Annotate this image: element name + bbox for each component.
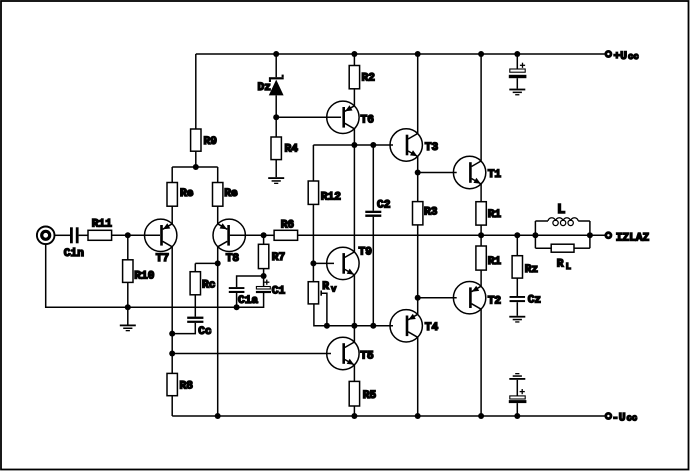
wire R7 top lead xyxy=(263,235,265,244)
potentiometer Rv wiper xyxy=(320,291,322,296)
wire R8 bottom lead xyxy=(171,396,173,416)
node input ground xyxy=(125,304,131,310)
resistor R10 xyxy=(123,260,155,283)
node diff tail xyxy=(193,164,199,170)
wire Rc branch horizontal xyxy=(195,262,217,264)
wire T7 collector down xyxy=(171,247,173,354)
node filter cap top rail xyxy=(514,51,520,57)
resistor R9 xyxy=(191,129,218,151)
wire Rc top lead xyxy=(194,263,196,271)
wire Dz to node xyxy=(275,95,277,117)
resistor R7 xyxy=(258,244,285,268)
wire R7 bottom lead xyxy=(263,269,265,276)
node T9 base xyxy=(310,260,316,266)
wire Re left top lead xyxy=(171,167,173,183)
ground R4 xyxy=(268,177,284,184)
resistor RL xyxy=(551,244,574,252)
wire R12 top lead xyxy=(312,145,314,181)
wire T9 base node to Rv xyxy=(312,263,314,281)
wire L right lead xyxy=(578,220,590,222)
wire T2 collector down xyxy=(480,309,482,416)
wire diff tail node horizontal xyxy=(172,166,218,168)
wire T1 emitter to R1 xyxy=(480,184,482,202)
wire node to R6 xyxy=(264,234,275,236)
transistor T6 xyxy=(327,101,375,133)
capacitor C1a xyxy=(229,287,259,307)
node L right rail xyxy=(587,232,593,238)
svg-text:R5: R5 xyxy=(363,390,377,402)
node T1 collector rail xyxy=(478,51,484,57)
resistor R8 xyxy=(167,373,193,395)
node T4 emitter xyxy=(415,295,421,301)
svg-text:T9: T9 xyxy=(359,247,373,259)
node Cc T7 collector xyxy=(169,331,175,337)
transistor T1 xyxy=(453,156,501,188)
node C1a ground xyxy=(234,304,240,310)
wire R5 bottom lead xyxy=(353,406,355,416)
wire input connector to Cin xyxy=(54,234,70,236)
svg-text:T3: T3 xyxy=(425,142,439,154)
wire T5 emitter to R5 xyxy=(353,365,355,382)
svg-text:T2: T2 xyxy=(488,295,502,307)
svg-text:v: v xyxy=(331,284,337,294)
resistor R1 upper xyxy=(476,202,502,225)
wire T3 collector up xyxy=(417,54,419,134)
svg-text:Cz: Cz xyxy=(528,294,541,306)
svg-text:L: L xyxy=(557,202,565,218)
svg-text:R8: R8 xyxy=(180,381,194,393)
svg-text:T6: T6 xyxy=(361,115,375,127)
wire RL left lead xyxy=(535,247,551,249)
wire L network right xyxy=(589,221,591,248)
wire R12 to T9 base node xyxy=(312,204,314,263)
terminal -Vcc xyxy=(606,412,638,424)
resistor R3 xyxy=(413,202,438,225)
svg-text:R2: R2 xyxy=(362,73,376,85)
wire L left lead xyxy=(535,220,548,222)
svg-text:T7: T7 xyxy=(156,253,169,265)
wire output rail to R1 lower xyxy=(480,235,482,246)
ground top filter cap xyxy=(509,89,525,96)
wire R9 top lead xyxy=(195,54,197,129)
wire feedback run xyxy=(172,353,331,355)
ground bottom filter cap xyxy=(509,373,525,380)
zener diode Dz xyxy=(258,75,284,96)
node R5 bottom rail xyxy=(351,413,357,419)
svg-text:R: R xyxy=(557,259,564,271)
wire lower bias horizontal xyxy=(314,304,393,326)
wire C1a bottom lead xyxy=(236,293,238,307)
transistor T4 xyxy=(390,310,439,342)
node Rv wiper xyxy=(324,323,330,329)
capacitor top filter xyxy=(509,63,527,79)
node bottom cap rail xyxy=(514,413,520,419)
svg-text:R3: R3 xyxy=(424,207,438,219)
input connector xyxy=(37,227,55,245)
capacitor Cc xyxy=(187,317,212,338)
svg-text:R: R xyxy=(322,281,329,293)
capacitor Cin xyxy=(64,227,84,260)
wire T9 emitter down xyxy=(353,275,355,326)
resistor R4 xyxy=(271,137,298,160)
node R7 C1 xyxy=(261,273,267,279)
wire T3 emitter to T1 base xyxy=(418,172,457,174)
wire top cap to ground xyxy=(516,78,518,88)
svg-text:+U: +U xyxy=(614,51,628,63)
wire bottom cap to rail xyxy=(516,403,518,416)
svg-text:T1: T1 xyxy=(488,169,502,181)
wire Re right top lead xyxy=(217,167,219,183)
resistor Rc xyxy=(190,272,216,295)
transistor T2 xyxy=(453,282,501,314)
svg-text:Rz: Rz xyxy=(525,264,538,276)
node T8 collector bottom rail xyxy=(215,413,221,419)
transistor T9 xyxy=(327,247,373,280)
wire Rz to Cz xyxy=(516,278,518,296)
wire +Vcc top rail xyxy=(196,53,605,55)
node T6 collector xyxy=(351,142,357,148)
svg-text:R7: R7 xyxy=(272,252,285,264)
wire R3 top lead xyxy=(417,173,419,202)
svg-text:R1: R1 xyxy=(488,209,502,221)
label Rv xyxy=(322,281,337,295)
wire output rail xyxy=(298,234,605,236)
wire R4 to ground xyxy=(275,160,277,178)
wire R1 lower to T2 emitter xyxy=(480,270,482,286)
svg-text:R6: R6 xyxy=(281,220,295,232)
svg-text:-U: -U xyxy=(612,412,626,424)
node Dz top rail xyxy=(273,51,279,57)
wire C1 top lead xyxy=(263,276,265,287)
svg-text:R4: R4 xyxy=(285,144,299,156)
wire T6 collector to T9 collector xyxy=(353,129,355,252)
wire Re left to T7 emitter xyxy=(171,206,173,224)
svg-text:cc: cc xyxy=(627,413,638,423)
wire T1 collector up xyxy=(480,54,482,161)
resistor R2 xyxy=(349,66,375,89)
wire T3 emitter down xyxy=(417,156,419,172)
wire R10 top lead xyxy=(127,235,129,259)
node T7 base xyxy=(125,232,131,238)
node T8 base xyxy=(261,232,267,238)
wire Rc to Cc xyxy=(194,295,196,317)
resistor R11 xyxy=(88,219,112,241)
node R2 top rail xyxy=(351,51,357,57)
svg-text:Dz: Dz xyxy=(258,82,271,94)
wire bottom cap ground lead xyxy=(516,380,518,396)
terminal +Vcc xyxy=(606,51,639,63)
transistor T7 xyxy=(145,219,177,265)
wire Cz to ground xyxy=(516,302,518,316)
transistor T3 xyxy=(390,129,439,161)
wire T8 base to node xyxy=(230,234,264,236)
wire Cc to T7 collector xyxy=(172,323,195,334)
wire Rv wiper run xyxy=(322,293,327,326)
node R1 output rail xyxy=(478,232,484,238)
wire T4 emitter up xyxy=(417,298,419,315)
node Rc T8 collector xyxy=(215,260,221,266)
node feedback xyxy=(169,351,175,357)
resistor Re right xyxy=(213,183,239,207)
node C2 top xyxy=(370,142,376,148)
wire ground stub xyxy=(127,307,129,324)
wire C2 top lead xyxy=(372,145,374,211)
wire R9 bottom lead xyxy=(195,151,197,167)
transistor T5 xyxy=(327,337,374,369)
node T3 collector rail xyxy=(415,51,421,57)
wire R2 top lead xyxy=(353,54,355,66)
capacitor bottom filter xyxy=(509,389,527,403)
svg-text:Cc: Cc xyxy=(198,326,212,338)
node Rz rail xyxy=(514,232,520,238)
wire R8 top lead xyxy=(171,354,173,374)
wire T5 collector up xyxy=(353,326,355,342)
resistor Re left xyxy=(167,183,194,207)
resistor R1 lower xyxy=(476,246,502,270)
svg-text:T5: T5 xyxy=(360,350,374,362)
inductor L xyxy=(548,202,578,226)
svg-text:C1a: C1a xyxy=(238,295,258,307)
transistor T8 xyxy=(213,219,245,265)
svg-text:R1: R1 xyxy=(488,256,502,268)
node C2 bottom xyxy=(370,323,376,329)
wire bias node horizontal xyxy=(313,144,393,146)
wire R4 top lead xyxy=(275,117,277,137)
wire R7 to C1a xyxy=(237,276,264,287)
wire T8 collector down xyxy=(217,247,219,417)
ground Cz xyxy=(509,316,525,323)
node T9 emitter T5 xyxy=(351,323,357,329)
svg-text:Re: Re xyxy=(224,188,238,200)
wire top cap leads xyxy=(516,54,518,69)
wire RL right lead xyxy=(574,247,590,249)
svg-text:Cin: Cin xyxy=(64,248,84,260)
svg-text:cc: cc xyxy=(628,52,639,62)
node L left rail xyxy=(532,232,538,238)
node T2 collector bottom rail xyxy=(478,413,484,419)
wire T4 collector down xyxy=(417,337,419,416)
svg-text:R9: R9 xyxy=(204,136,218,148)
resistor R12 xyxy=(308,181,341,204)
svg-text:Rc: Rc xyxy=(202,280,216,292)
node T4 collector bottom rail xyxy=(415,413,421,419)
wire input ground run xyxy=(46,244,264,307)
capacitor Cz xyxy=(510,294,542,306)
svg-text:R10: R10 xyxy=(134,271,154,283)
svg-text:C1: C1 xyxy=(272,285,286,297)
wire Dz top lead xyxy=(275,54,277,77)
wire R2 to T6 emitter xyxy=(353,89,355,106)
wire Rz top lead xyxy=(516,235,518,255)
potentiometer Rv xyxy=(308,282,318,304)
wire -Vcc bottom rail xyxy=(172,415,604,417)
wire L network left xyxy=(534,221,536,248)
wire C2 bottom lead xyxy=(372,217,374,326)
svg-text:Re: Re xyxy=(180,188,194,200)
capacitor C1 xyxy=(256,280,286,298)
terminal IZLAZ xyxy=(606,233,650,245)
svg-text:IZLAZ: IZLAZ xyxy=(616,233,650,245)
svg-text:C2: C2 xyxy=(377,200,391,212)
wire T9 base xyxy=(313,262,334,264)
svg-text:L: L xyxy=(566,262,571,272)
wire Cin to R11 xyxy=(79,234,88,236)
resistor R6 xyxy=(274,220,298,241)
wire R1 to output rail xyxy=(480,225,482,235)
node T3 emitter xyxy=(415,170,421,176)
wire R10 bottom lead xyxy=(127,282,129,307)
svg-text:R12: R12 xyxy=(321,192,341,204)
ground input xyxy=(120,325,136,332)
wire T6 base xyxy=(276,116,341,118)
svg-text:R11: R11 xyxy=(92,219,112,231)
resistor R5 xyxy=(349,381,376,406)
svg-text:T4: T4 xyxy=(425,322,439,334)
resistor Rz xyxy=(512,256,538,278)
node Dz R4 T6 xyxy=(273,114,279,120)
wire R3 to T4 node xyxy=(417,225,419,298)
capacitor C2 xyxy=(365,200,390,217)
svg-text:T8: T8 xyxy=(226,253,240,265)
wire T2 base run xyxy=(418,297,457,299)
wire Re right to T8 emitter xyxy=(217,206,219,224)
wire R11 to T7 base xyxy=(112,234,160,236)
label RL xyxy=(557,259,571,273)
